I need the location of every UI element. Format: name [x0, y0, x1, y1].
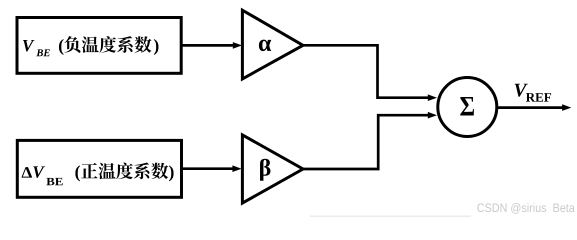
label 正温度系数	[81, 163, 98, 178]
arrowhead output	[562, 104, 571, 111]
block delta-V_BE (positive temperature coefficient)	[17, 140, 181, 197]
label sigma	[460, 97, 474, 116]
faint divider line	[310, 215, 471, 217]
label opening paren box2	[75, 165, 80, 181]
label closing paren box1	[154, 39, 159, 55]
wire box2 to amplifier beta	[181, 167, 233, 170]
wire box1 to amplifier alpha	[181, 44, 234, 47]
watermark CSDN @sirius Beta	[477, 203, 484, 212]
wire alpha to summer	[303, 45, 429, 97]
output wire	[497, 106, 563, 109]
label alpha	[259, 40, 271, 52]
arrowhead into summer lower	[428, 112, 437, 119]
label closing paren box2	[169, 165, 174, 181]
amplifier beta triangle	[242, 135, 303, 203]
arrowhead into summer upper	[428, 94, 437, 101]
label V of V_REF	[515, 84, 528, 97]
label beta	[260, 159, 270, 181]
label BE subscript (italic)	[36, 49, 43, 56]
summer circle	[438, 78, 497, 137]
arrowhead into beta	[232, 165, 241, 172]
label BE subscript (upright)	[46, 178, 54, 185]
block V_BE (negative temperature coefficient)	[17, 18, 181, 74]
label REF subscript	[526, 93, 535, 102]
amplifier alpha triangle	[242, 10, 303, 79]
label opening paren box1	[59, 39, 64, 55]
label V_BE	[23, 40, 35, 52]
arrowhead into alpha	[233, 42, 242, 49]
label 负温度系数	[64, 36, 80, 53]
wire beta to summer	[303, 115, 429, 169]
label V box2	[33, 166, 45, 178]
label delta	[22, 167, 32, 177]
